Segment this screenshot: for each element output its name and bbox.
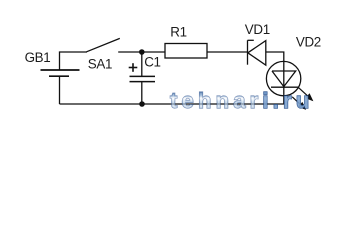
- LED emission arrows: [292, 87, 312, 109]
- wire VD1 to corner and down through VD2 to bottom wire: [266, 52, 284, 104]
- svg-text:GB1: GB1: [25, 50, 51, 65]
- switch SA1 arm: [87, 38, 120, 51]
- battery GB1 plates: [41, 70, 80, 76]
- labels: [25, 22, 321, 71]
- junction dot top (C1 / R1 node): [139, 49, 145, 55]
- svg-text:R1: R1: [170, 25, 186, 40]
- wire battery top to switch pivot: [60, 52, 88, 70]
- diode VD1: [248, 40, 266, 65]
- resistor R1 box: [165, 44, 207, 59]
- junction dot bottom: [139, 101, 145, 107]
- C1 polarity plus: [129, 63, 138, 72]
- bottom wire: [60, 103, 285, 105]
- svg-text:C1: C1: [144, 54, 160, 69]
- battery GB1 negative lead: [59, 76, 61, 104]
- LED VD2: [266, 61, 300, 95]
- capacitor C1: [130, 52, 156, 104]
- svg-text:VD2: VD2: [296, 34, 321, 49]
- wire switch contact to R1: [118, 51, 165, 53]
- wire R1 to VD1: [207, 51, 248, 53]
- svg-text:SA1: SA1: [88, 57, 112, 72]
- svg-text:VD1: VD1: [245, 22, 270, 37]
